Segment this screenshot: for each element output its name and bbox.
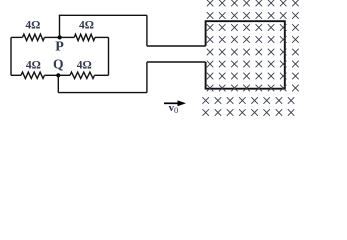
wire lower rail into field loop: [147, 61, 206, 63]
node Q junction dot: [56, 73, 60, 77]
wire rise to lower rail at right: [146, 62, 148, 93]
wire top rail drop at right: [146, 15, 148, 46]
resistor R2 4ohm (top-right): [74, 34, 95, 40]
svg-text:Q: Q: [53, 57, 64, 72]
wire bottom horizontal: [58, 92, 147, 94]
wire left vertical of resistor network: [10, 37, 12, 75]
node P junction dot: [58, 35, 62, 39]
resistor R1 4ohm (top-left): [23, 34, 45, 40]
wire top rail horizontal: [59, 14, 147, 16]
conducting loop in magnetic field (rectangle, open at left between rails): [206, 21, 285, 89]
resistor R3 4ohm (bottom-left): [21, 72, 45, 78]
wire right vertical of resistor network: [108, 37, 110, 75]
svg-text:4Ω: 4Ω: [26, 59, 41, 71]
wire from R1 to node P: [45, 36, 60, 38]
svg-text:4Ω: 4Ω: [79, 20, 94, 32]
wire bottom branch left lead: [11, 74, 21, 76]
wire from node P to R2: [60, 36, 74, 38]
svg-text:4Ω: 4Ω: [77, 59, 92, 71]
svg-text:4Ω: 4Ω: [25, 20, 40, 32]
velocity arrow v0: [164, 102, 179, 104]
wire from R2 to right vertical: [95, 36, 109, 38]
wire riser from node P up to top rail: [59, 15, 61, 37]
wire upper rail into field loop: [147, 45, 206, 47]
magnetic field region B into page (grid of x symbols): [201, 0, 301, 123]
svg-text:P: P: [55, 39, 64, 54]
wire top branch left lead: [11, 36, 23, 38]
wire from R3 to node Q: [45, 74, 59, 76]
svg-text:××××××××: ××××××××: [201, 103, 296, 123]
wire from R4 to right vertical: [95, 74, 109, 76]
wire drop from node Q to bottom wire: [57, 75, 59, 92]
wire from node Q to R4: [58, 74, 70, 76]
resistor R4 4ohm (bottom-right): [70, 72, 95, 78]
